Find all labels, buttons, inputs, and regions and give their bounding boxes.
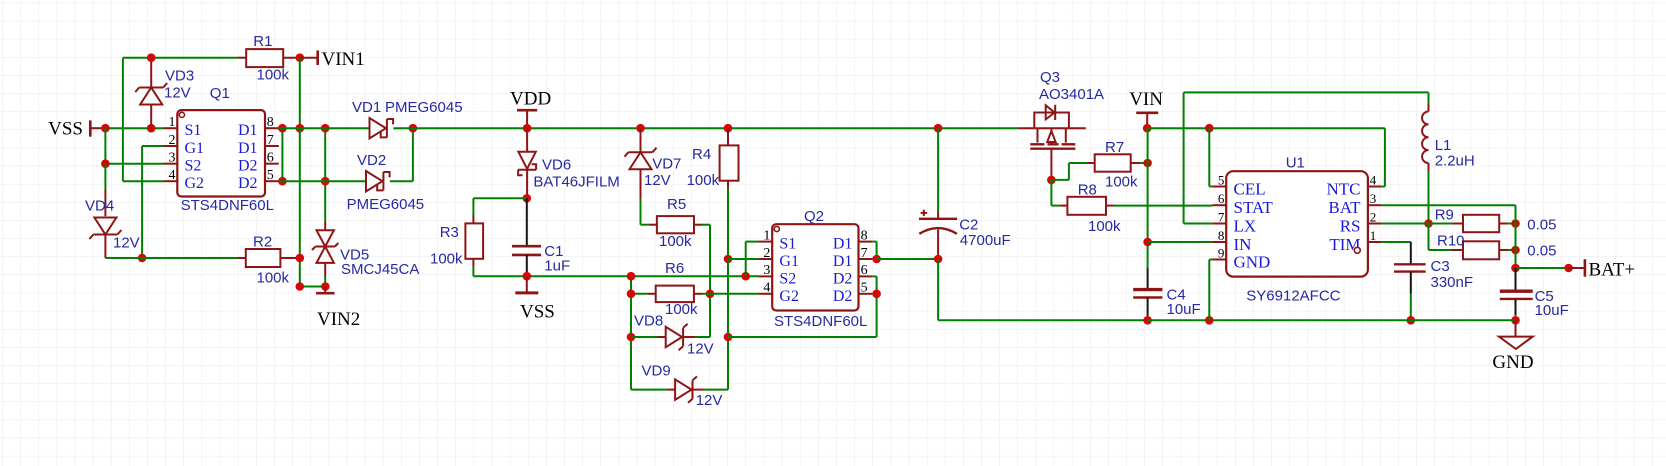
- wire VD4 top: [104, 164, 106, 217]
- svg-text:VD8: VD8: [634, 313, 663, 330]
- svg-text:4: 4: [1370, 172, 1377, 187]
- node IN junction: [1143, 238, 1152, 247]
- svg-text:R10: R10: [1437, 232, 1465, 249]
- wire CEL drop: [1209, 128, 1212, 186]
- wire VIN vertical to IN/C4: [1147, 128, 1149, 289]
- svg-text:12V: 12V: [164, 85, 191, 102]
- label Q2 value STS4DNF60L: [774, 313, 867, 330]
- svg-text:S2: S2: [185, 158, 202, 175]
- wire R6 right: [694, 293, 710, 295]
- svg-text:2: 2: [1370, 209, 1377, 224]
- label R6 value 100k: [665, 301, 698, 318]
- svg-text:12V: 12V: [113, 235, 140, 252]
- label C2: [959, 217, 978, 234]
- svg-text:S2: S2: [779, 270, 796, 287]
- svg-text:100k: 100k: [1088, 218, 1121, 235]
- wire BAT+ row: [1516, 267, 1569, 269]
- label VD9 value 12V: [696, 392, 723, 409]
- svg-text:U1: U1: [1286, 154, 1305, 171]
- label Q3: [1040, 69, 1060, 86]
- port VIN1: [300, 49, 365, 70]
- label R7: [1105, 139, 1124, 156]
- label VD3: [165, 68, 194, 85]
- wire C5 bottom: [1515, 299, 1517, 320]
- wire G1 to Q2: [728, 258, 758, 260]
- svg-text:8: 8: [861, 228, 868, 243]
- wire R4 bottom: [727, 181, 729, 259]
- svg-text:VD4: VD4: [85, 198, 114, 215]
- label C1: [544, 243, 563, 260]
- svg-text:STS4DNF60L: STS4DNF60L: [181, 197, 274, 214]
- wire C5 top: [1515, 268, 1517, 291]
- wire C1 bottom: [526, 255, 528, 276]
- svg-text:STS4DNF60L: STS4DNF60L: [774, 313, 867, 330]
- svg-text:VD1: VD1: [352, 99, 381, 116]
- svg-text:R8: R8: [1078, 181, 1097, 198]
- wire VD6 top: [526, 128, 528, 152]
- svg-text:7: 7: [1218, 209, 1225, 224]
- node VD3 top junction: [147, 53, 156, 62]
- svg-text:IN: IN: [1234, 235, 1252, 254]
- svg-text:100k: 100k: [687, 172, 720, 189]
- wire Q3 gate: [1050, 149, 1052, 180]
- wire bottom GND rail: [1148, 319, 1516, 321]
- node VIN2 junction left: [296, 282, 305, 291]
- label R9 value 0.05: [1527, 217, 1556, 234]
- label U1 value SY6912AFCC: [1246, 287, 1340, 304]
- label R1: [253, 33, 272, 50]
- svg-text:Q2: Q2: [804, 208, 824, 225]
- wire D1 row to VD1: [279, 127, 370, 129]
- label C4: [1167, 287, 1186, 304]
- capacitor C1: [512, 246, 541, 255]
- svg-text:D1: D1: [238, 140, 258, 157]
- node 631 R6 junction: [627, 290, 636, 299]
- wire D1-D2 vertical at 299.8: [299, 128, 301, 181]
- svg-text:VD9: VD9: [642, 363, 671, 380]
- label VD2: [357, 152, 386, 169]
- svg-text:R9: R9: [1435, 207, 1454, 224]
- svg-text:1uF: 1uF: [544, 257, 570, 274]
- svg-text:2.2uH: 2.2uH: [1435, 152, 1475, 169]
- node D1 row junction at 299.8: [296, 124, 305, 133]
- wire R2 left stub: [238, 257, 246, 259]
- port VIN: [1129, 89, 1163, 128]
- svg-text:100k: 100k: [659, 233, 692, 250]
- label VD9: [642, 363, 671, 380]
- node GND pin9 junction: [1205, 316, 1214, 325]
- wire VD8 anode: [631, 336, 666, 338]
- wire G2 to Q2: [710, 293, 758, 295]
- svg-text:100k: 100k: [1105, 174, 1138, 191]
- wire R4 top stub: [727, 128, 729, 145]
- wire R5 vertical down: [709, 225, 711, 337]
- label R8 value 100k: [1088, 218, 1121, 235]
- svg-text:S1: S1: [185, 122, 202, 139]
- label R3: [440, 224, 459, 241]
- wire VSS branch vertical at 631: [630, 276, 632, 389]
- label R2 value 100k: [257, 270, 290, 287]
- wire R8 left: [1051, 180, 1059, 206]
- wire IN wire: [1148, 241, 1213, 243]
- label VD6: [542, 157, 571, 174]
- label VD4 value 12V: [113, 235, 140, 252]
- resistor R2: [246, 249, 281, 267]
- svg-text:0.05: 0.05: [1527, 242, 1556, 259]
- svg-text:4700uF: 4700uF: [960, 232, 1011, 249]
- wire Q2 D2 to VD8 row: [728, 336, 877, 338]
- svg-text:LX: LX: [1234, 217, 1257, 236]
- wire VD8-VD9 vertical at 728: [727, 259, 729, 390]
- wire R5 left stub: [649, 224, 657, 226]
- wire Q2 S1 tie: [746, 242, 759, 277]
- svg-text:G2: G2: [779, 288, 799, 305]
- wire R3 top stub: [472, 215, 474, 223]
- label R9: [1435, 207, 1454, 224]
- label L1: [1435, 137, 1452, 154]
- node R2 right junction: [296, 254, 305, 263]
- node C5 bottom junction: [1511, 316, 1520, 325]
- node C3 bottom junction: [1407, 316, 1416, 325]
- svg-text:R5: R5: [667, 196, 686, 213]
- wire R5 right: [694, 224, 710, 226]
- node R10 right junction: [1511, 246, 1520, 255]
- label VD1 value PMEG6045: [385, 99, 463, 116]
- svg-text:12V: 12V: [687, 341, 714, 358]
- svg-text:3: 3: [169, 151, 176, 166]
- node VD4-R2 junction: [138, 254, 147, 263]
- svg-text:VIN: VIN: [1129, 89, 1163, 110]
- node VDD junction: [523, 124, 532, 133]
- node VD2-rail junction: [409, 124, 418, 133]
- label VD6 value BAT46JFILM: [533, 173, 619, 190]
- node 631 VD8 junction: [627, 333, 636, 342]
- svg-text:R6: R6: [665, 260, 684, 277]
- svg-text:R3: R3: [440, 224, 459, 241]
- node VIN2 junction right: [321, 282, 330, 291]
- wire VD6 node to R3: [473, 198, 526, 215]
- wire VD9 cathode: [694, 389, 729, 391]
- label C3: [1431, 258, 1450, 275]
- svg-text:D2: D2: [238, 158, 258, 175]
- op-amp U1 (charger IC): [1212, 171, 1381, 276]
- svg-text:5: 5: [861, 281, 868, 296]
- wire D1-D2 tie: [281, 128, 283, 181]
- node C1-VSS junction: [523, 272, 532, 281]
- svg-text:12V: 12V: [696, 392, 723, 409]
- label R6: [665, 260, 684, 277]
- wire VD4 bottom to R2: [105, 235, 238, 259]
- svg-text:330nF: 330nF: [1431, 274, 1474, 291]
- svg-text:C3: C3: [1431, 258, 1450, 275]
- label C5: [1535, 288, 1554, 305]
- transistor Q1 (dual MOSFET): [164, 110, 279, 196]
- svg-text:VSS: VSS: [520, 302, 555, 323]
- wire L1 bottom: [1428, 171, 1430, 224]
- resistor R7: [1095, 154, 1131, 171]
- wire R8 to STAT: [1114, 205, 1212, 207]
- wire VIN1 net top: [123, 57, 238, 59]
- svg-text:BAT+: BAT+: [1589, 259, 1636, 280]
- wire R1 right: [283, 57, 300, 59]
- label R10: [1437, 232, 1465, 249]
- svg-text:NTC: NTC: [1327, 180, 1361, 199]
- label R5: [667, 196, 686, 213]
- label R7 value 100k: [1105, 174, 1138, 191]
- node C2 bottom junction: [934, 255, 943, 264]
- svg-text:2: 2: [763, 246, 770, 261]
- node R1-VIN1 junction: [296, 53, 305, 62]
- capacitor C5: [1500, 291, 1533, 299]
- svg-text:R7: R7: [1105, 139, 1124, 156]
- resistor R1: [246, 49, 283, 67]
- port VSS: [48, 119, 101, 140]
- svg-text:D2: D2: [833, 288, 853, 305]
- node G1-Q2 junction: [724, 255, 733, 264]
- svg-text:100k: 100k: [430, 251, 463, 268]
- transistor Q2 (dual MOSFET): [758, 224, 872, 310]
- wire S1-S2 tie: [105, 128, 163, 164]
- wire R8 right stub: [1106, 205, 1114, 207]
- zener VD9: [675, 376, 697, 402]
- capacitor C2 (polarized): [919, 210, 957, 234]
- svg-text:R2: R2: [253, 234, 272, 251]
- node BAT+ port junction: [1564, 264, 1573, 273]
- wire rail to NTC: [1147, 128, 1385, 186]
- node Q3 gate junction: [1047, 176, 1056, 185]
- svg-text:VD2: VD2: [357, 152, 386, 169]
- wire VD5 top: [324, 128, 326, 230]
- wire R7 left: [1051, 163, 1086, 180]
- port BAT+: [1569, 259, 1636, 280]
- svg-text:1: 1: [763, 228, 770, 243]
- label R2: [253, 234, 272, 251]
- label VD3 value 12V: [164, 85, 191, 102]
- svg-text:CEL: CEL: [1234, 180, 1266, 199]
- label Q1 value STS4DNF60L: [181, 197, 274, 214]
- wire VD6 bottom: [526, 170, 528, 199]
- svg-text:STAT: STAT: [1234, 198, 1274, 217]
- svg-text:0.05: 0.05: [1527, 217, 1556, 234]
- wire VD9 anode: [631, 389, 675, 391]
- diode VD6: [518, 152, 536, 176]
- label VD7: [652, 156, 681, 173]
- resistor R8: [1067, 197, 1106, 215]
- node VD6 bottom junction: [523, 194, 532, 203]
- node R7 right junction: [1143, 159, 1152, 168]
- svg-text:S1: S1: [779, 236, 796, 253]
- svg-text:PMEG6045: PMEG6045: [347, 196, 425, 213]
- label VD5 value SMCJ45CA: [341, 261, 419, 278]
- svg-text:4: 4: [763, 281, 770, 296]
- wire VSS to Q1 S1: [101, 127, 164, 129]
- wire VD8 cathode: [684, 336, 710, 338]
- wire R9 right: [1499, 223, 1515, 225]
- resistor R3: [465, 223, 483, 258]
- wire C3 bottom: [1410, 272, 1412, 321]
- node VD8-row junction at 728: [724, 333, 733, 342]
- diode VD1: [370, 118, 394, 138]
- svg-text:1: 1: [169, 115, 176, 130]
- svg-text:D1: D1: [833, 236, 853, 253]
- svg-text:VDD: VDD: [510, 88, 551, 109]
- label Q1: [210, 85, 230, 102]
- resistor R9: [1463, 215, 1499, 232]
- node R4 rail junction: [724, 124, 733, 133]
- svg-text:Q1: Q1: [210, 85, 230, 102]
- label R5 value 100k: [659, 233, 692, 250]
- wire R7 left stub: [1087, 162, 1095, 164]
- svg-text:SY6912AFCC: SY6912AFCC: [1246, 287, 1340, 304]
- diode VD2: [366, 171, 390, 191]
- svg-text:8: 8: [267, 115, 274, 130]
- label VD2 value PMEG6045: [347, 196, 425, 213]
- zener VD4: [89, 218, 121, 240]
- svg-text:VSS: VSS: [48, 119, 83, 140]
- wire Q2 D1 tie: [872, 242, 876, 259]
- wire R1 to D1 vertical: [299, 58, 301, 129]
- wire VD2 out up to rail: [390, 128, 413, 181]
- wire top-left vertical to G2: [123, 58, 164, 182]
- ground VSS: [515, 276, 555, 322]
- node S1-junction A: [101, 124, 110, 133]
- svg-text:12V: 12V: [644, 172, 671, 189]
- label L1 value 2.2uH: [1435, 152, 1475, 169]
- node VD5 crossing D2 row: [321, 177, 330, 186]
- zener VD8: [666, 324, 688, 350]
- node Q2 D1 junction: [872, 255, 881, 264]
- svg-text:R4: R4: [692, 146, 711, 163]
- node 631 rail junction: [627, 272, 636, 281]
- wire Q2 D2 tie: [872, 276, 876, 337]
- wire VSS rail: [473, 275, 758, 277]
- zener VD3: [135, 83, 167, 105]
- wire C1 top: [526, 198, 528, 246]
- wire GND pin9 drop: [1209, 260, 1212, 321]
- transistor Q3 (PMOS): [1017, 105, 1086, 149]
- svg-text:7: 7: [861, 246, 868, 261]
- label Q2: [804, 208, 824, 225]
- wire VD3 bottom: [150, 104, 152, 128]
- label R8: [1078, 181, 1097, 198]
- capacitor C3: [1394, 264, 1426, 271]
- wire G1 net: [142, 146, 163, 258]
- node Q2 D2 junction: [872, 290, 881, 299]
- svg-text:VIN1: VIN1: [322, 49, 365, 70]
- wire VD5 bottom: [324, 263, 326, 287]
- node R6-G2 junction: [706, 290, 715, 299]
- resistor R6: [656, 286, 694, 303]
- svg-text:AO3401A: AO3401A: [1039, 86, 1104, 103]
- node C4 bottom junction: [1143, 316, 1152, 325]
- capacitor C4: [1133, 290, 1162, 298]
- wire C2 to bottom rail: [938, 259, 1148, 320]
- svg-text:VD6: VD6: [542, 157, 571, 174]
- wire R7 right: [1131, 162, 1148, 164]
- node D1 tie top: [278, 124, 287, 133]
- wire R2 node down to VIN2 row: [300, 258, 326, 287]
- svg-text:BAT: BAT: [1328, 198, 1361, 217]
- node BAT+ junction: [1511, 264, 1520, 273]
- wire D2 row to VD2: [279, 180, 366, 182]
- tvs diode VD5: [312, 230, 338, 263]
- label R4: [692, 146, 711, 163]
- node VD5 top junction: [321, 124, 330, 133]
- label Q3 value AO3401A: [1039, 86, 1104, 103]
- svg-text:6: 6: [267, 151, 274, 166]
- svg-text:2: 2: [169, 133, 176, 148]
- svg-text:7: 7: [267, 133, 274, 148]
- svg-text:100k: 100k: [257, 270, 290, 287]
- svg-text:D2: D2: [833, 270, 853, 287]
- node C2 rail junction: [934, 124, 943, 133]
- node VD7 rail junction: [636, 124, 645, 133]
- port VIN2: [316, 287, 360, 331]
- label VD8: [634, 313, 663, 330]
- label R3 value 100k: [430, 251, 463, 268]
- wire R6 left: [631, 293, 656, 295]
- wire C2 top: [937, 128, 939, 218]
- label R4 value 100k: [687, 172, 720, 189]
- svg-text:R1: R1: [253, 33, 272, 50]
- wire D2 down to R2 row: [299, 181, 301, 258]
- svg-text:5: 5: [267, 168, 274, 183]
- svg-text:3: 3: [763, 263, 770, 278]
- wire R8 left stub: [1059, 205, 1067, 207]
- wire VD3 top: [150, 58, 152, 88]
- wire R10 right: [1499, 249, 1515, 251]
- node R9 right junction: [1511, 219, 1520, 228]
- svg-text:VIN2: VIN2: [317, 309, 360, 330]
- node Q2 S rail junction: [741, 272, 750, 281]
- svg-text:VD7: VD7: [652, 156, 681, 173]
- label R10 value 0.05: [1527, 242, 1556, 259]
- wire C4 bottom: [1147, 298, 1149, 321]
- wire BAT net: [1382, 205, 1516, 268]
- svg-text:VD3: VD3: [165, 68, 194, 85]
- svg-text:RS: RS: [1340, 217, 1361, 236]
- svg-text:G1: G1: [779, 253, 799, 270]
- wire R9 left: [1429, 223, 1464, 225]
- svg-text:D1: D1: [833, 253, 853, 270]
- wire main VDD rail: [393, 127, 1017, 129]
- label C3 value 330nF: [1431, 274, 1474, 291]
- wire Q2 D1 to C2: [877, 258, 939, 260]
- wire TIM net: [1382, 242, 1411, 264]
- wire RS to node: [1382, 223, 1429, 225]
- svg-text:6: 6: [861, 263, 868, 278]
- label R1 value 100k: [257, 67, 290, 84]
- node VIN junction: [1143, 124, 1152, 133]
- resistor R5: [657, 216, 694, 233]
- resistor R10: [1463, 241, 1499, 259]
- label VD7 value 12V: [644, 172, 671, 189]
- port VDD: [510, 88, 551, 128]
- svg-text:D2: D2: [238, 175, 258, 192]
- node D2 tie bottom: [278, 177, 287, 186]
- node CEL rail junction: [1205, 124, 1214, 133]
- wire R10 left: [1429, 224, 1464, 251]
- node L1-RS junction: [1424, 219, 1433, 228]
- svg-text:Q3: Q3: [1040, 69, 1060, 86]
- svg-text:GND: GND: [1234, 253, 1271, 272]
- wire VD7 top: [640, 128, 642, 152]
- svg-text:9: 9: [1218, 245, 1225, 260]
- resistor R4: [720, 145, 739, 180]
- svg-text:BAT46JFILM: BAT46JFILM: [533, 173, 619, 190]
- label C4 value 10uF: [1167, 301, 1201, 318]
- svg-text:5: 5: [1218, 172, 1225, 187]
